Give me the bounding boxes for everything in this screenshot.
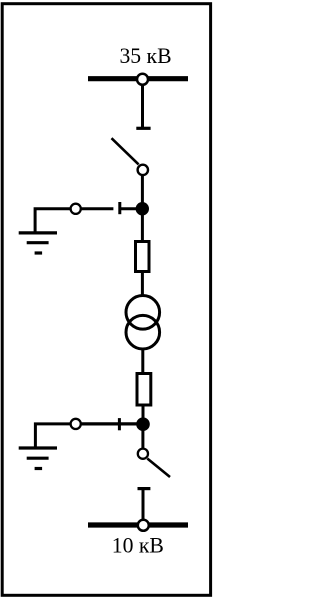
node B junction dot <box>136 417 150 431</box>
wire from fuse FU2 to node B <box>142 404 145 420</box>
node tap circle on 10 kV busbar <box>138 520 149 531</box>
wire from transformer T1 to fuse FU2 <box>141 349 144 374</box>
grounding switch QSG2 earth lead wire <box>35 424 71 447</box>
transformer T1 secondary winding circle <box>126 315 160 349</box>
transformer T1 primary winding circle <box>126 296 160 330</box>
wire from QS2 contact to 10 kV busbar <box>142 489 145 525</box>
ground symbol 2 bar 3 <box>35 467 43 470</box>
disconnector QS1 fixed contact tick <box>136 127 150 130</box>
disconnector QS2 hinge circle <box>138 449 148 459</box>
frame border <box>2 4 210 596</box>
fuse FU1 body <box>136 242 150 272</box>
grounding switch QSG1 fixed contact bar <box>118 202 121 214</box>
grounding switch QSG1 blade (open, gap before contact) <box>81 207 114 210</box>
grounding switch QSG1 earth lead wire <box>35 209 71 232</box>
node tap circle on 35 kV busbar <box>137 74 148 85</box>
wire from node B to disconnector QS2 hinge <box>141 428 144 449</box>
grounding switch QSG1 hinge circle <box>71 204 81 214</box>
wire from busbar to disconnector QS1 <box>141 84 144 129</box>
wire from fuse FU1 to transformer T1 <box>141 272 144 297</box>
svg-text:35 кВ: 35 кВ <box>119 44 171 68</box>
busbar 35 kV <box>88 76 188 81</box>
ground symbol 2 bar 1 <box>19 446 57 449</box>
grounding switch QSG2 hinge circle <box>71 419 81 429</box>
svg-text:10 кВ: 10 кВ <box>112 533 164 557</box>
disconnector QS1 blade (open) <box>112 138 139 164</box>
disconnector QS2 fixed contact tick <box>138 487 151 490</box>
wire from QSG1 contact to node A <box>120 207 137 210</box>
wire from QS1 hinge to node A <box>141 175 144 204</box>
ground symbol 1 bar 3 <box>35 251 43 254</box>
node A junction dot <box>136 202 149 215</box>
ground symbol 1 bar 1 <box>19 231 57 234</box>
grounding switch QSG2 fixed contact bar <box>118 418 121 430</box>
ground symbol 1 bar 2 <box>27 241 49 244</box>
ground symbol 2 bar 2 <box>27 457 49 460</box>
wire from node A to fuse FU1 <box>141 213 144 241</box>
fuse FU2 body <box>137 374 151 406</box>
disconnector QS2 blade (open) <box>147 459 170 478</box>
disconnector QS1 hinge circle <box>138 165 148 175</box>
grounding switch QSG2 blade (closed, through contact) <box>81 422 138 425</box>
busbar 10 kV <box>88 522 188 527</box>
